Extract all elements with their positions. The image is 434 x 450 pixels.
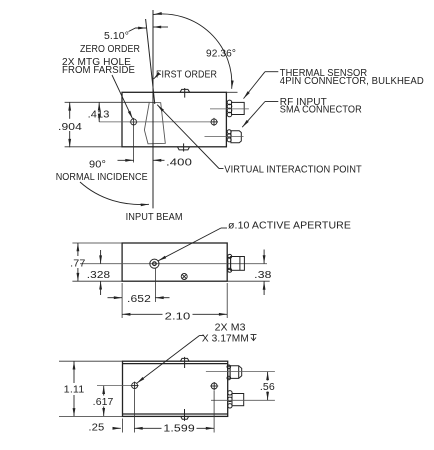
dimension .413 [98,102,100,122]
svg-text:92.36°: 92.36° [206,49,236,60]
M3 hole left [131,382,139,390]
input beam / first order vertical line [152,10,154,208]
svg-text:.904: .904 [58,122,82,133]
top tab bottom view [180,357,189,368]
svg-text:ø.10 ACTIVE APERTURE: ø.10 ACTIVE APERTURE [228,221,351,232]
dimension .56 [267,372,269,400]
thermal connector [227,100,244,117]
active aperture [150,259,159,268]
svg-text:.617: .617 [93,397,114,408]
hole centerline ext left [97,385,132,387]
extension lines below bottom view [123,390,215,433]
svg-text:.77: .77 [70,258,86,269]
SMA connector upper (bottom view) [227,365,242,380]
dimension .652 [108,297,170,299]
extension lines below middle view [122,269,227,319]
crystal wedge [144,102,165,144]
dimension .38 [227,280,270,282]
svg-text:.328: .328 [87,270,111,281]
92.36 deg arc [154,14,232,89]
svg-text:2.10: 2.10 [165,312,191,323]
screw middle view [181,274,187,280]
dimension 2.10 [122,313,227,315]
SMA connector lower (bottom view) [228,391,244,408]
svg-text:VIRTUAL INTERACTION POINT: VIRTUAL INTERACTION POINT [224,165,361,176]
depth symbol [251,335,257,341]
svg-text:90°: 90° [89,160,106,171]
dimension 1.599 [134,427,214,429]
bottom tab bottom view [181,409,189,421]
svg-text:2X M3: 2X M3 [215,323,246,334]
dimension .617 [103,386,105,417]
svg-text:.652: .652 [127,294,151,305]
dimension .400 [118,159,165,161]
bottom extension line for .904 [65,146,122,148]
svg-text:SMA CONNECTOR: SMA CONNECTOR [280,105,362,116]
top tab [180,88,190,98]
svg-text:.56: .56 [260,382,275,393]
body outline top view [122,92,226,147]
svg-text:1.599: 1.599 [163,424,195,435]
body top edge extension right [226,91,237,93]
dimension .904 [69,102,71,147]
svg-text:FROM FARSIDE: FROM FARSIDE [62,65,135,76]
inner ledge line left of wedge [65,101,150,103]
svg-text:4PIN CONNECTOR, BULKHEAD: 4PIN CONNECTOR, BULKHEAD [280,76,424,87]
svg-text:.25: .25 [88,423,104,434]
svg-text:1.11: 1.11 [64,385,85,396]
zero order beam line [146,19,155,104]
body outline middle view [122,243,227,281]
svg-text:.38: .38 [254,270,272,281]
RF SMA connector top view [227,130,241,143]
svg-text:X 3.17MM: X 3.17MM [202,334,249,345]
mtg hole extension line down [133,126,135,163]
5.10 deg dimension arrows [129,28,147,32]
mounting hole right [210,118,218,126]
svg-text:NORMAL INCIDENCE: NORMAL INCIDENCE [56,172,148,183]
svg-text:FIRST ORDER: FIRST ORDER [156,69,217,80]
hole centerline [99,121,211,123]
thermal connector centerline [210,108,249,110]
aperture centerline [80,263,267,265]
body outline bottom view [123,361,228,416]
dimension .25 [113,427,121,429]
svg-text:5.10°: 5.10° [104,31,129,42]
dimension .328 [100,250,102,295]
mounting hole left [130,118,138,126]
dimension .77 [72,243,122,281]
bottom tab [177,143,189,151]
normal incidence leader arc to input beam [80,182,149,205]
svg-text:ZERO ORDER: ZERO ORDER [80,44,140,55]
svg-text:INPUT BEAM: INPUT BEAM [126,212,183,223]
SMA connector middle view [228,254,245,272]
RF connector centerline [205,135,244,137]
M3 hole right [210,382,218,390]
svg-text:.400: .400 [166,158,192,169]
svg-text:.413: .413 [88,109,110,120]
dimension 1.11 [59,361,123,416]
